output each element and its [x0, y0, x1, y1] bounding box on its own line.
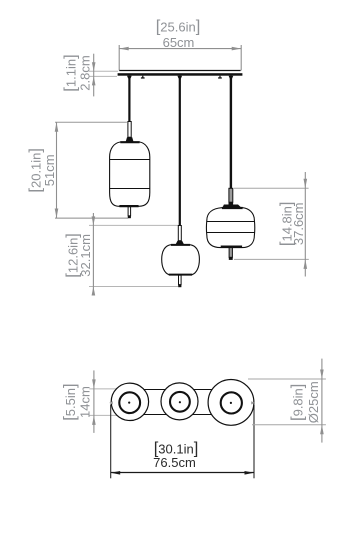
dimension dia25cm extension line top — [248, 378, 326, 380]
dimension 2.8cm arrow top — [92, 62, 96, 71]
dimension 37.6cm extension line top — [234, 187, 309, 189]
svg-text:[25.6in]: [25.6in] — [156, 18, 201, 36]
canopy nub left cap — [141, 77, 145, 78]
dimension 37.6cm extension line bottom — [234, 258, 309, 260]
svg-text:Ø25cm: Ø25cm — [306, 381, 321, 423]
canopy nub right — [219, 76, 220, 78]
pendant P1 glass bottom rim — [119, 205, 138, 207]
dimension dia25cm extension line bottom — [252, 424, 326, 426]
plan circle middle center dot — [179, 401, 181, 403]
dimension dia25cm arrow top — [320, 370, 324, 380]
pendant P1 socket cap — [126, 137, 134, 141]
dimension 32.1cm extension line bottom — [89, 286, 178, 288]
canopy nub right cap — [218, 77, 222, 78]
dimension 76.5cm extension line left — [110, 405, 112, 479]
dimension dia25cm line — [321, 359, 323, 443]
svg-text:14cm: 14cm — [77, 386, 92, 418]
dimension 37.6cm line — [304, 172, 306, 277]
pendant P3 socket upper cap — [229, 202, 234, 204]
dimension 14cm extension line bottom — [89, 414, 119, 416]
pendant P1 glass top rim — [120, 141, 139, 143]
pendant P1 connector tube — [128, 122, 131, 138]
pendant P2 socket cap — [176, 241, 184, 244]
svg-text:37.6cm: 37.6cm — [291, 202, 306, 245]
dimension 65cm arrow left — [119, 47, 129, 51]
pendant P1 glass body — [110, 142, 150, 206]
pendant P2 stem tube — [179, 275, 182, 284]
svg-text:[9.8in]: [9.8in] — [289, 384, 307, 421]
pendant P1 band line lower — [110, 188, 150, 190]
pendant P2 glass top rim — [171, 244, 190, 246]
dimension 2.8cm extension line bottom — [89, 75, 117, 77]
pendant P1 rod — [128, 76, 130, 122]
dimension 76.5cm extension line right — [253, 405, 255, 478]
pendant P3 glass body — [206, 208, 254, 248]
dimension 37.6cm arrow top — [304, 179, 308, 189]
pendant P1 rod top flare — [127, 76, 132, 79]
plan circle left inner — [119, 392, 140, 413]
pendant P1 stem tip — [128, 216, 131, 218]
pendant P3 rod top flare — [229, 76, 234, 79]
dimension 37.6cm arrow bottom — [304, 259, 308, 269]
dimension 32.1cm arrow top — [92, 216, 96, 225]
dimension 32.1cm arrow bottom — [92, 287, 96, 296]
dimension 32.1cm extension line top — [89, 224, 178, 226]
dimension 2.8cm line — [93, 54, 95, 97]
plan bar top edge — [119, 389, 241, 391]
plan circle left center dot — [128, 402, 130, 404]
pendant P1 stem tube — [128, 207, 131, 216]
canopy bar top line — [119, 70, 240, 72]
dimension 65cm arrow right — [232, 47, 242, 51]
plan circle right outer — [208, 380, 254, 426]
dimension 14cm extension line top — [89, 388, 119, 390]
plan circle right center dot — [230, 402, 232, 404]
dimension 76.5cm arrow right — [245, 471, 255, 475]
pendant P2 glass bottom rim — [169, 274, 192, 276]
dimension 51cm extension line top — [55, 121, 127, 123]
pendant P3 glass top rim — [222, 207, 243, 209]
dimension 14cm arrow bottom — [92, 415, 96, 425]
plan bar bottom edge — [119, 414, 241, 416]
pendant P3 stem tube — [229, 248, 232, 258]
pendant P2 glass body — [162, 245, 200, 275]
pendant P3 stem tip — [229, 257, 233, 260]
svg-text:[5.5in]: [5.5in] — [61, 383, 79, 420]
pendant P3 connector tube — [229, 188, 233, 202]
plan circle middle outer — [161, 383, 198, 420]
dimension 14cm line — [93, 370, 95, 433]
pendant P3 band line lower — [207, 232, 255, 234]
svg-text:65cm: 65cm — [163, 35, 195, 50]
plan circle left outer — [111, 383, 148, 420]
dimension 51cm arrow bottom — [55, 209, 59, 219]
dimension 14cm arrow top — [92, 379, 96, 389]
dimension 51cm line — [56, 122, 58, 218]
plan mini arrow left — [109, 401, 113, 404]
dimension 76.5cm line — [111, 472, 254, 474]
dimension 65cm extension line right — [240, 45, 242, 71]
pendant P2 rod — [179, 76, 181, 226]
dimension 2.8cm extension line top — [89, 70, 118, 72]
dimension 65cm line — [119, 48, 241, 50]
svg-text:32.1cm: 32.1cm — [78, 234, 93, 277]
dimension 76.5cm arrow left — [111, 471, 121, 475]
svg-text:51cm: 51cm — [42, 154, 57, 186]
dimension 2.8cm arrow bottom — [92, 76, 96, 85]
pendant P3 socket flange — [222, 205, 241, 208]
canopy nub left — [142, 76, 143, 78]
svg-text:2.8cm: 2.8cm — [77, 55, 92, 90]
plan circle middle inner — [170, 392, 190, 412]
dimension 51cm arrow top — [55, 122, 59, 132]
svg-text:76.5cm: 76.5cm — [153, 455, 196, 470]
pendant P2 rod top flare — [177, 76, 182, 79]
pendant P3 glass bottom rim — [221, 246, 242, 248]
pendant P2 connector tube — [178, 226, 181, 241]
pendant P3 band line upper — [207, 221, 255, 223]
plan circle right inner — [221, 392, 242, 413]
plan mini arrow right — [251, 401, 255, 404]
dimension 65cm extension line left — [118, 45, 120, 71]
dimension 32.1cm line — [92, 213, 94, 294]
pendant P2 stem tip — [178, 285, 181, 288]
dimension dia25cm arrow bottom — [320, 425, 324, 435]
pendant P3 rod — [230, 76, 232, 189]
pendant P1 band line upper — [110, 159, 150, 161]
canopy bar body — [118, 73, 243, 76]
dimension 51cm extension line bottom — [55, 217, 128, 219]
